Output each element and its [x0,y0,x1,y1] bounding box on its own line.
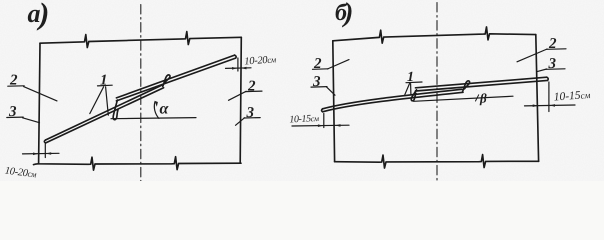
slab outline top border with break symbols (panel b) [333,27,536,43]
bar B (upper-right bar) double line [116,55,234,98]
bar 1 (left bar, panel b) double line [323,89,462,109]
svg-text:β: β [479,91,487,106]
right dimension (panel b): extension line, dim line, arrows [548,82,550,112]
bar 2 right rounded end [547,77,548,80]
centerline (dash-dot) panel b [436,3,438,182]
slab right border [240,37,241,163]
centerline (dash-dot) panel a [140,5,142,182]
beta letter with lead-in stroke [476,95,479,101]
bar 2 left end hook with loop [411,90,416,101]
bar A (lower-left bar) double line [46,85,164,140]
slab left border (panel b) [333,41,335,162]
bar 2 (right bar, panel b) double line [416,77,547,88]
bar A left rounded end [44,140,45,143]
svg-text:α: α [160,101,170,118]
slab outline top border with break symbols [40,32,241,48]
bar B right rounded end [235,55,237,58]
bar B left end hook with loop [113,100,118,120]
slab right border (panel b) [536,35,539,162]
bar 1 right end hook with loop [463,81,470,92]
angle alpha: horizontal reference line [111,118,196,119]
slab bottom border with break symbols (panel b) [335,155,539,169]
slab left border [39,43,40,164]
left dimension (panel b): extension line, dim line, arrows [323,114,325,128]
bar 1 left rounded end [322,109,323,112]
angle alpha: arc with arrowhead [154,102,159,119]
slab bottom border with break symbols [34,157,242,171]
angle beta: reference line [414,96,514,101]
scan grain overlay [0,0,604,181]
bottom-left dimension: extension line, dim line, arrows [44,144,46,158]
top-right dimension: extension line, dim line, arrows [237,58,239,71]
bar A right end hook with loop [163,75,170,86]
